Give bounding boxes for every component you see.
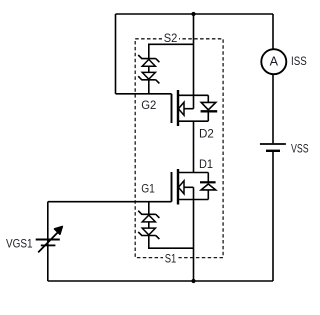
wire main vertical: D2 to D1 (drain-drain) (193, 121, 195, 172)
zener Z3 triangle (apex up) (142, 215, 155, 222)
svg-text:S1: S1 (165, 254, 177, 266)
source VGS1 long bar (36, 239, 60, 241)
MOSFET Q1 gate bar (171, 172, 173, 202)
wire VGS1 branch upper (x=48) (47, 202, 49, 281)
wire main vertical: Q1 body stub down to S1 node and bottom wire (193, 187, 195, 281)
wire G1 to bottom zener stack (148, 202, 150, 214)
Q2 body diode triangle (apex down) (201, 102, 216, 109)
svg-text:VSS: VSS (291, 144, 309, 156)
MOSFET Q1 channel bar (177, 169, 179, 205)
wire top (S2/G2 tie, y=14) (116, 13, 274, 15)
Q1 body diode branch wire (lower) (207, 190, 209, 200)
label S2 (162, 32, 179, 44)
battery VSS long bar (260, 143, 286, 145)
MOSFET Q1 source stub (bottom) (178, 199, 208, 201)
wire battery to bottom (272, 152, 274, 281)
svg-text:ISS: ISS (291, 56, 307, 68)
zener Z1 (upper, cathode up) bar (138, 55, 159, 62)
battery VSS short bar (266, 150, 280, 152)
svg-text:G1: G1 (141, 184, 155, 196)
MOSFET Q2 body stub (184, 108, 194, 110)
ammeter A (ISS meter) (261, 49, 286, 74)
Q1 body diode branch wire (upper) (207, 173, 209, 183)
zener Z4 (lower, cathode down) triangle (apex down) (142, 228, 155, 235)
wire bottom (y=281) (48, 280, 273, 282)
Q2 body diode branch wire (lower) (207, 111, 209, 121)
MOSFET Q2 body arrow (178, 102, 184, 115)
Q1 body diode triangle (apex up) (201, 184, 216, 190)
source VGS1 short bar (41, 244, 56, 246)
zener Z4 bar (138, 232, 159, 239)
MOSFET Q2 channel bar (177, 90, 179, 126)
source VGS1 adjustment arrow (38, 232, 58, 253)
Q2 body diode cathode bar (201, 110, 218, 112)
MOSFET Q2 source stub (top) (178, 94, 208, 96)
wire right vertical (top, to ammeter) (272, 14, 274, 49)
svg-text:G2: G2 (141, 100, 156, 112)
zener Z2 bar (138, 76, 159, 83)
svg-text:VGS1: VGS1 (6, 239, 33, 251)
zener Z3 (upper, cathode up) bar (138, 211, 159, 218)
wire zener stack to G2 wire (148, 80, 150, 94)
junction dot bottom (S1 node) (191, 279, 195, 283)
zener Z1 triangle (apex up) (142, 59, 155, 66)
wire left vertical (G2 tie, x=115.5) (115, 14, 117, 94)
Q2 body diode branch wire (upper) (207, 95, 209, 102)
MOSFET Q1 drain stub (top) (178, 172, 208, 174)
svg-text:D1: D1 (199, 159, 213, 171)
wire S2 to top zener stack (149, 44, 194, 58)
wire ammeter to battery (272, 74, 274, 143)
zener Z2 (lower, cathode down) triangle (apex down) (142, 72, 155, 79)
MOSFET Q2 drain stub (bottom) (178, 120, 208, 122)
MOSFET Q1 body stub (184, 186, 194, 188)
MOSFET Q1 body arrow (178, 181, 184, 194)
svg-text:A: A (270, 54, 279, 68)
MOSFET Q2 gate bar (171, 94, 173, 123)
Q1 body diode cathode bar (200, 181, 216, 183)
label S1 (163, 253, 179, 265)
wire main vertical: S2 node down to Q2 body stub (193, 14, 195, 109)
wire G2 gate lead (y=93.8) (116, 93, 172, 95)
wire between zeners (top stack) (148, 66, 150, 72)
dashed enclosure (DUT box) (135, 39, 223, 258)
svg-text:S2: S2 (164, 33, 178, 45)
wire G1 gate lead (y=201.4) (48, 201, 172, 203)
wire zener stack to S1 node (149, 236, 194, 249)
junction dot top (S2 tie) (191, 12, 195, 16)
wire between zeners (bottom stack) (148, 222, 150, 228)
svg-text:D2: D2 (199, 129, 214, 141)
